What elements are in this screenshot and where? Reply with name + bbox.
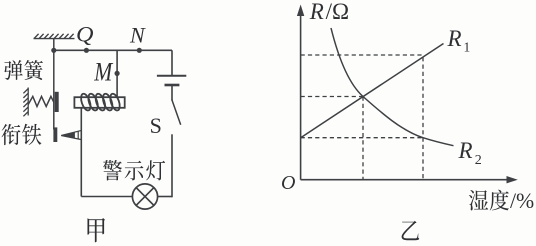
- wall anchor (hatched) for spring: [23, 88, 28, 117]
- y-axis with arrow: [297, 5, 304, 180]
- spring (zigzag): [28, 96, 54, 106]
- node M: [115, 71, 120, 76]
- ceiling support (hatched): [34, 34, 75, 39]
- label 衔铁 (armature): [2, 124, 42, 145]
- armature upper iron bar: [55, 92, 59, 112]
- label 警示灯 (warning lamp): [103, 160, 165, 180]
- svg-text:R: R: [447, 26, 462, 51]
- dashed guide: upper horizontal to R1: [301, 54, 423, 56]
- node N: [137, 48, 142, 53]
- label 甲 (figure A): [87, 218, 105, 242]
- wire right branch lower (switch to corner): [171, 134, 173, 197]
- svg-text:S: S: [150, 113, 162, 138]
- switch S blade (open): [172, 100, 181, 125]
- node at pivot (wire junction): [51, 48, 56, 53]
- svg-text:1: 1: [464, 40, 471, 55]
- wire from coil bottom-left down to lamp: [80, 108, 82, 197]
- svg-text:M: M: [93, 58, 113, 87]
- wire bottom-left to lamp: [81, 196, 132, 198]
- dashed guide: middle horizontal to intersection: [301, 96, 363, 98]
- dashed guide: vertical at right humidity value: [422, 57, 424, 180]
- x-axis with arrow: [301, 176, 518, 183]
- armature lower contact bar: [53, 127, 57, 142]
- wire top horizontal: [54, 49, 172, 51]
- wire from node M down to coil: [116, 50, 118, 97]
- svg-text:O: O: [281, 172, 295, 194]
- armature lever (vertical rod from ceiling): [53, 39, 55, 130]
- svg-text:N: N: [129, 23, 146, 48]
- svg-text:Q: Q: [76, 21, 94, 46]
- electromagnet coil core: [74, 97, 124, 108]
- wire lamp to bottom-right corner: [158, 196, 172, 198]
- dashed guide: vertical at intersection: [362, 97, 364, 180]
- svg-text:/%: /%: [510, 189, 534, 213]
- node Q: [84, 48, 89, 53]
- label 乙 (figure B): [402, 221, 420, 241]
- svg-text:R: R: [458, 138, 473, 163]
- svg-text:2: 2: [475, 153, 482, 168]
- fixed contact (arrow toward armature): [61, 130, 81, 139]
- lamp (circle with X): [132, 184, 157, 209]
- svg-text:R/Ω: R/Ω: [309, 0, 349, 24]
- electromagnet coil windings: [79, 93, 121, 112]
- dashed guide: lower horizontal to R2: [301, 137, 423, 139]
- curve R2 (falling curve): [331, 28, 454, 146]
- label 弹簧 (spring): [4, 60, 43, 80]
- label 湿度/% (x-axis): [469, 190, 509, 211]
- curve R1 (rising line): [301, 44, 444, 138]
- battery cell: [157, 50, 186, 100]
